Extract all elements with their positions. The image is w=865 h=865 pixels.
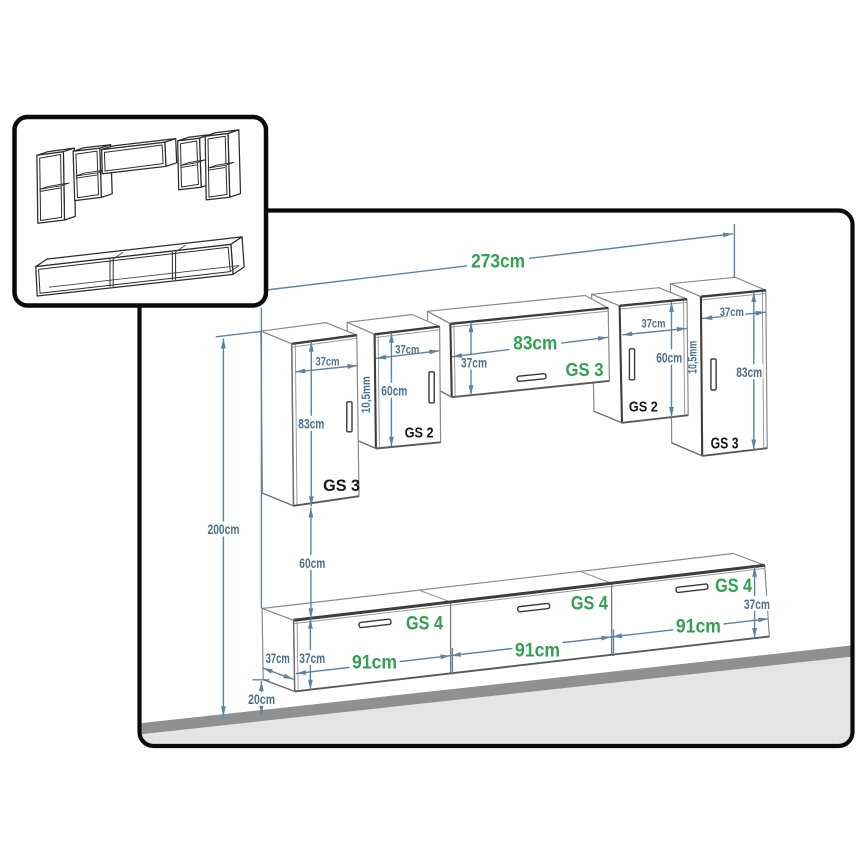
svg-text:83cm: 83cm: [298, 416, 324, 432]
273cm overall width dimension: [267, 224, 735, 290]
cabinet E (right GS 3): [670, 277, 767, 456]
svg-text:60cm: 60cm: [299, 555, 325, 571]
inset box 1 (tall left): [37, 148, 75, 223]
svg-text:37cm: 37cm: [266, 650, 290, 666]
svg-text:91cm: 91cm: [352, 653, 397, 674]
TV stand 91cm dimension section 3: [612, 616, 769, 656]
inset box 2: [73, 145, 112, 201]
svg-text:91cm: 91cm: [515, 640, 560, 661]
cabinet C 83cm width dimension: [452, 333, 608, 357]
svg-text:GS 4: GS 4: [406, 613, 443, 634]
cabinet C (middle GS 3): [427, 296, 609, 398]
200cm height dimension: [206, 332, 262, 717]
TV stand 91cm dimension section 2: [451, 636, 612, 675]
cabinet C 37cm height dimension: [460, 322, 488, 395]
cabinet D (right GS 2): [592, 288, 689, 423]
svg-text:91cm: 91cm: [676, 616, 721, 637]
svg-text:60cm: 60cm: [381, 383, 407, 399]
svg-text:37cm: 37cm: [642, 316, 666, 330]
inset box 4: [178, 135, 212, 190]
cabinet E 83cm height dimension: [735, 292, 763, 450]
floor: [138, 645, 854, 747]
svg-text:37cm: 37cm: [744, 596, 770, 612]
svg-text:GS 3: GS 3: [323, 476, 360, 495]
cabinet D 37cm width dimension: [622, 316, 687, 336]
svg-text:GS 4: GS 4: [571, 594, 608, 615]
handle GS4: [676, 584, 708, 593]
svg-text:273cm: 273cm: [471, 252, 525, 273]
svg-text:37cm: 37cm: [720, 305, 744, 319]
cabinet A 37cm width dimension: [295, 355, 357, 374]
svg-text:GS 3: GS 3: [566, 360, 604, 380]
svg-text:GS 4: GS 4: [715, 576, 752, 597]
TV stand 91cm dimension section 1: [296, 653, 451, 675]
cabinet A 83cm height dimension: [297, 342, 325, 507]
cabinet B 37cm width dimension: [376, 342, 439, 359]
60cm gap dimension below cabinet A: [298, 508, 326, 619]
cabinet A (left tall GS 3): [261, 323, 359, 506]
svg-text:37cm: 37cm: [316, 355, 340, 369]
left extension line: [260, 308, 262, 609]
TV stand (3x GS 4): [262, 554, 769, 692]
cabinet B (left GS 2): [347, 315, 441, 449]
svg-text:60cm: 60cm: [656, 349, 682, 365]
TV stand 37cm height dimension left: [298, 619, 326, 690]
svg-text:37cm: 37cm: [395, 342, 419, 356]
svg-text:83cm: 83cm: [736, 364, 762, 380]
cabinet E 37cm width dimension: [702, 304, 765, 320]
20cm bottom gap dimension: [247, 680, 277, 715]
TV stand 37cm height dimension right: [743, 567, 771, 638]
cabinet D 60cm height dimension: [655, 302, 683, 417]
svg-text:GS 2: GS 2: [405, 424, 434, 441]
svg-text:20cm: 20cm: [248, 692, 275, 707]
inset long shelf: [102, 139, 177, 174]
svg-text:37cm: 37cm: [299, 650, 325, 666]
svg-text:37cm: 37cm: [461, 355, 487, 371]
svg-text:GS 2: GS 2: [629, 398, 658, 415]
svg-text:GS 3: GS 3: [711, 435, 739, 452]
svg-text:10,5mm: 10,5mm: [361, 376, 373, 413]
TV stand 37cm depth dimension on side: [263, 650, 294, 679]
main panel border: [140, 211, 853, 747]
handle GS4: [359, 619, 391, 628]
svg-text:83cm: 83cm: [513, 333, 557, 354]
inset box 5 (tall right): [205, 130, 240, 200]
svg-text:200cm: 200cm: [208, 522, 240, 537]
handle GS4: [518, 603, 550, 612]
inset thumbnail panel: [15, 117, 267, 306]
inset TV stand: [36, 237, 244, 296]
svg-text:10,5mm: 10,5mm: [688, 341, 700, 374]
cabinet B 60cm height dimension: [380, 333, 408, 447]
